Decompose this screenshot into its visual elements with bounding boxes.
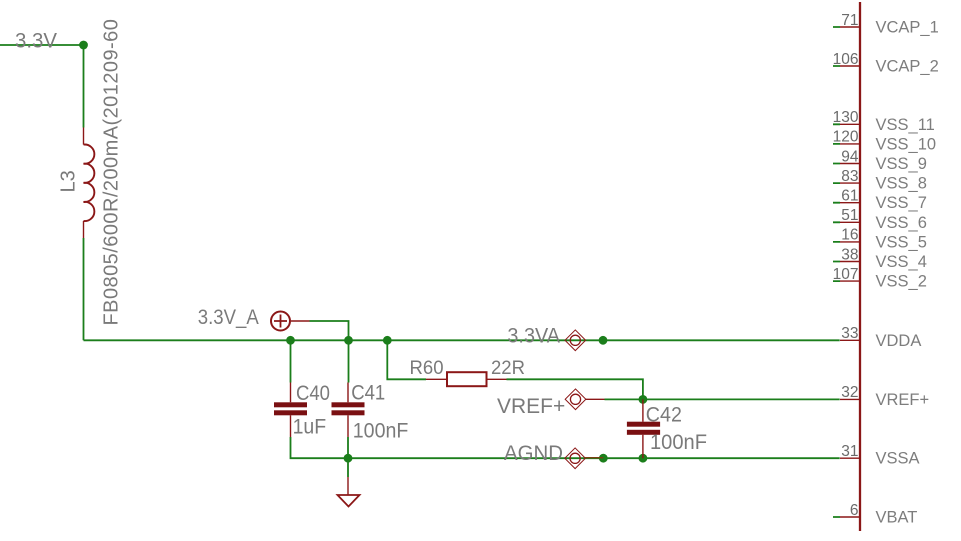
svg-text:VREF+: VREF+ <box>497 394 565 418</box>
svg-text:VSSA: VSSA <box>876 450 920 468</box>
svg-text:C42: C42 <box>646 402 682 426</box>
svg-text:3.3V: 3.3V <box>15 28 58 52</box>
svg-text:1uF: 1uF <box>293 414 327 438</box>
svg-text:100nF: 100nF <box>650 430 707 454</box>
svg-text:31: 31 <box>841 443 858 460</box>
svg-text:VDDA: VDDA <box>876 332 922 350</box>
svg-text:100nF: 100nF <box>353 418 409 442</box>
svg-text:VSS_7: VSS_7 <box>876 194 927 212</box>
svg-text:120: 120 <box>833 129 859 146</box>
svg-text:VCAP_1: VCAP_1 <box>876 19 939 37</box>
svg-text:FB0805/600R/200mA(201209-60: FB0805/600R/200mA(201209-60 <box>101 19 123 326</box>
svg-text:VBAT: VBAT <box>876 509 918 527</box>
svg-text:71: 71 <box>841 12 858 29</box>
svg-text:107: 107 <box>833 266 859 283</box>
svg-text:C40: C40 <box>296 381 330 405</box>
svg-text:VSS_8: VSS_8 <box>876 175 927 193</box>
svg-text:38: 38 <box>841 246 858 263</box>
svg-text:VSS_10: VSS_10 <box>876 135 937 153</box>
svg-text:VSS_6: VSS_6 <box>876 214 927 232</box>
svg-text:6: 6 <box>850 502 859 519</box>
svg-text:3.3VA: 3.3VA <box>507 323 560 347</box>
svg-text:AGND: AGND <box>504 441 563 465</box>
svg-text:R60: R60 <box>410 358 444 379</box>
svg-text:C41: C41 <box>351 380 385 404</box>
svg-text:33: 33 <box>841 325 858 342</box>
svg-text:32: 32 <box>841 384 858 401</box>
svg-text:VSS_11: VSS_11 <box>876 116 935 134</box>
svg-text:51: 51 <box>841 207 858 224</box>
svg-text:130: 130 <box>833 109 859 126</box>
svg-text:22R: 22R <box>491 358 525 379</box>
svg-text:3.3V_A: 3.3V_A <box>198 305 260 329</box>
svg-text:VSS_9: VSS_9 <box>876 155 927 173</box>
svg-text:61: 61 <box>841 188 858 205</box>
svg-text:VCAP_2: VCAP_2 <box>876 58 939 76</box>
svg-text:L3: L3 <box>58 170 80 192</box>
svg-text:VSS_5: VSS_5 <box>876 233 927 251</box>
svg-text:VSS_4: VSS_4 <box>876 253 927 271</box>
svg-text:VSS_2: VSS_2 <box>876 273 927 291</box>
svg-text:83: 83 <box>841 168 858 185</box>
svg-text:94: 94 <box>841 148 859 165</box>
svg-text:16: 16 <box>841 227 858 244</box>
svg-text:VREF+: VREF+ <box>876 391 930 409</box>
svg-text:106: 106 <box>833 51 859 68</box>
